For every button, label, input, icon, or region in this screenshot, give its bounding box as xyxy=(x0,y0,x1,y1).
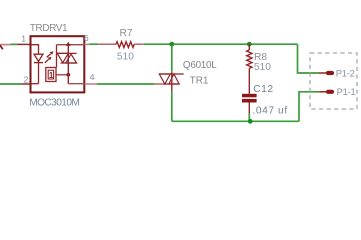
wire pin1 internal lead xyxy=(31,45,39,54)
pin 6 stub xyxy=(84,43,89,45)
wire C12 to bottom rail xyxy=(248,113,250,121)
gate marker box outer xyxy=(46,68,56,82)
triac TR1 top bar xyxy=(159,73,183,75)
resistor R8 zigzag xyxy=(247,50,252,68)
phototriac top bar xyxy=(57,52,76,54)
pin 1 stub xyxy=(17,43,30,45)
wire phototriac to pin4 xyxy=(68,83,84,85)
wire internal top rail pin6 xyxy=(57,44,85,46)
svg-text:TR1: TR1 xyxy=(190,75,209,86)
wire riser to P1-1 xyxy=(299,92,319,122)
wire phototriac main vertical xyxy=(67,45,69,83)
svg-text:510: 510 xyxy=(254,62,271,73)
svg-text:1: 1 xyxy=(21,34,26,44)
wire pin4 to TR1 gate xyxy=(97,83,155,85)
wire LED cathode lead xyxy=(38,63,40,84)
capacitor C12 bottom plate xyxy=(242,99,257,103)
phototriac bottom bar xyxy=(61,62,77,64)
pin 4 stub xyxy=(84,83,97,85)
pin P1-2 blob xyxy=(328,71,332,75)
wire top rail xyxy=(144,43,298,45)
svg-text:R7: R7 xyxy=(120,28,133,39)
pin P1-2 lead xyxy=(319,72,326,74)
triac TR1 right triangle xyxy=(169,74,179,84)
phototriac arrowhead xyxy=(66,42,71,46)
wire TR1 gate lead xyxy=(155,83,164,85)
svg-text:1: 1 xyxy=(49,71,54,80)
svg-text:6: 6 xyxy=(84,33,89,43)
junction internal gate node xyxy=(66,73,70,77)
wire internal left vertical to gate box xyxy=(56,45,58,68)
wire gate connection xyxy=(56,74,68,76)
junction node bottom rail xyxy=(248,119,253,124)
svg-text:P1-1: P1-1 xyxy=(337,87,356,97)
svg-text:510: 510 xyxy=(117,52,134,63)
connector dashed box xyxy=(310,53,357,109)
gate marker box inner xyxy=(48,70,53,79)
diode LED anode triangle xyxy=(34,54,43,61)
resistor R7 zigzag xyxy=(116,42,134,48)
wire pin2 internal lead xyxy=(31,83,39,85)
triac TR1 bottom bar xyxy=(164,83,180,85)
resistor R8 top lead xyxy=(248,44,250,50)
diode LED cathode bar xyxy=(34,62,43,64)
resistor R7 right lead xyxy=(134,43,144,45)
svg-text:.047 uf: .047 uf xyxy=(252,106,287,117)
wire riser to P1-2 xyxy=(298,44,319,73)
wire TR1 bottom green xyxy=(171,92,173,122)
wire pin6 to R7 xyxy=(90,43,99,45)
pin P1-1 blob xyxy=(328,90,332,94)
triac TR1 left triangle xyxy=(159,74,170,84)
wire clipped diagonal at left edge xyxy=(0,45,3,49)
svg-text:Q6010L: Q6010L xyxy=(183,60,217,71)
op-amp U1 optocoupler TRDRV1 box xyxy=(31,36,85,92)
wire net to pin 1 xyxy=(11,43,18,45)
pin P1-1 lead xyxy=(319,91,326,93)
wire bottom rail xyxy=(172,120,299,122)
pin 2 stub xyxy=(21,83,30,85)
svg-text:C12: C12 xyxy=(253,84,273,95)
junction node at R8 column xyxy=(247,42,252,47)
svg-text:4: 4 xyxy=(90,72,95,82)
svg-text:MOC3010M: MOC3010M xyxy=(29,97,79,108)
wire TR1 top green xyxy=(171,44,173,71)
wire TR1 red vertical xyxy=(171,72,173,92)
svg-text:2: 2 xyxy=(24,74,29,84)
svg-text:P1-2: P1-2 xyxy=(336,68,355,78)
photon arrow upper xyxy=(47,51,54,57)
phototriac right triangle xyxy=(66,54,77,63)
capacitor C12 top plate xyxy=(242,94,257,98)
capacitor C12 bottom lead xyxy=(248,103,250,114)
phototriac left triangle xyxy=(57,53,68,62)
photon arrow lower xyxy=(45,57,52,63)
wire net to pin 2 xyxy=(0,83,21,85)
junction node at TR1 column xyxy=(169,42,174,47)
wire clipped net stub at left edge (top row) xyxy=(0,44,11,46)
svg-text:TRDRV1: TRDRV1 xyxy=(30,23,68,34)
resistor R7 left lead xyxy=(98,43,116,45)
resistor R8 bottom lead xyxy=(248,68,250,93)
